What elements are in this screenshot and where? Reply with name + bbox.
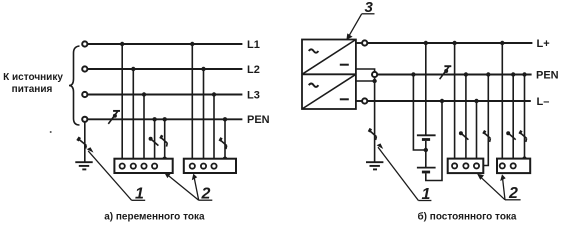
terminal circle L1 [82,41,87,46]
leader label 1 (right) [377,143,432,200]
junction dot PEN/box1 [152,117,156,121]
junction dot L-/battery [440,99,444,103]
junction dot PEN/PE wire boxA [486,72,490,76]
svg-text:L+: L+ [537,38,550,50]
line L3 [87,94,242,96]
junction dot battery midpoint [424,148,428,152]
fault mark on PEN line (right) [440,66,452,79]
line L+ [367,42,532,44]
fault mark on PEN line [108,111,120,124]
terminal circle L2 [82,66,87,71]
junction dot PEN stub [372,79,376,83]
fault mark on PE wire box 1 [160,135,167,146]
junction dot PEN/boxB [511,72,515,76]
svg-text:L3: L3 [247,89,260,101]
battery cell 1 [417,135,436,139]
junction dot PEN/battery tap [411,72,415,76]
junction dot L3/box2 [212,92,216,96]
leader label 3 [346,14,374,40]
leader label 2 (left) [164,172,212,200]
terminal circle L+ [362,40,367,45]
junction dot PEN/PE wire box1 [163,117,167,121]
PE wire to box B enclosure [524,75,526,159]
fault mark on PEN wire box B [506,131,516,140]
PEN upper stub from converter [356,69,375,72]
leader label 2 (right) [477,174,520,200]
junction dot PEN/PE wire boxB [522,72,526,76]
terminal circle L3 [82,92,87,97]
svg-text:1: 1 [135,186,144,203]
wire L2 to box 1 [132,69,134,164]
box 2 terminal circles [190,164,217,169]
load box 1 [114,159,172,173]
svg-text:1: 1 [422,186,431,203]
PE wire to box A enclosure [483,75,488,166]
DC dash top module [340,64,349,66]
battery feed wire from L+ [425,43,427,135]
ground electrode (left) [75,162,92,169]
load box 2 [184,159,236,173]
L- output stub [356,100,362,102]
junction dot PEN/PE wire box2 [223,117,227,121]
L+ output stub [356,42,362,44]
wire PEN to box A [465,75,467,165]
bonding dot on box B [522,156,526,160]
svg-text:PEN: PEN [247,114,270,126]
line L- [367,100,531,102]
junction dot PEN/boxA [464,72,468,76]
bonding dot on box 2 [223,157,227,161]
scan artifact dot [50,131,52,133]
junction dot L1/box2 [190,42,194,46]
junction dot L+/battery [424,41,428,45]
wire L1 to box 1 [121,44,123,164]
svg-text:L1: L1 [247,39,260,51]
earthing conductor (right) [374,77,376,162]
junction dot L1/box1 [120,42,124,46]
fault mark on PEN wire box A [459,131,469,140]
svg-text:L2: L2 [247,64,260,76]
terminal circle PEN [82,117,87,122]
leader label 1 (left) [87,147,146,200]
box 1 terminal circles [120,164,158,169]
terminal circle L- [362,98,367,103]
junction dot L2/box2 [201,67,205,71]
ground electrode (right) [366,162,383,169]
svg-text:L–: L– [537,96,550,108]
brace to source [69,46,80,125]
earthing conductor (left) [84,122,86,162]
load box B [497,159,530,174]
converter unit 3 (two AC/DC modules) [302,40,356,110]
AC tilde bottom module [309,84,319,87]
svg-text:питания: питания [12,84,53,95]
svg-text:а) переменного тока: а) переменного тока [104,211,205,222]
fault mark on PE wire box A [483,131,490,142]
bonding dot on box 1 [163,157,167,161]
junction dot L3/box1 [142,92,146,96]
PEN lower stub from converter [356,80,375,82]
svg-text:б) постоянного тока: б) постоянного тока [418,210,517,222]
load box A [448,159,484,174]
line PEN (right diagram) [377,74,531,76]
line L2 [87,68,242,70]
junction dot L-/boxA [474,99,478,103]
line L1 [87,43,242,45]
fault mark on PE wire box B [520,131,527,142]
wire L3 to box 2 [213,95,215,165]
terminal circle PEN (right) [372,72,377,77]
wire L+ to box B [501,43,503,164]
wire PEN to box 1 [154,119,156,164]
fault mark on earthing conductor [78,137,87,148]
box A terminal circles [452,163,479,168]
wire L3 to box 1 [143,95,145,165]
PE wire to box 2 enclosure [224,119,226,158]
junction dot L+/boxA [452,41,456,45]
wire L+ to box A [454,43,456,164]
svg-text:К источнику: К источнику [3,72,63,83]
junction dot L+/boxB [500,41,504,45]
svg-text:3: 3 [365,0,374,16]
battery cell 2 [417,168,436,172]
AC tilde top module [309,49,319,52]
box B terminal circles [500,163,516,168]
wire L- to box A [476,101,478,164]
fault mark on PE wire box 2 [220,138,227,149]
fault mark on earthing conductor (right) [369,129,376,140]
wire L1 to box 2 [191,44,193,164]
svg-text:2: 2 [201,185,211,202]
battery midpoint wire from PEN [413,75,425,151]
wire PEN to box B [512,75,514,165]
DC dash bottom module [340,98,349,100]
svg-text:PEN: PEN [536,69,559,81]
wire L2 to box 2 [203,69,205,164]
wire between cells [425,141,427,167]
text "К источнику питания" [3,72,63,95]
fault mark on PEN wire to box 1 [149,137,159,146]
line PEN (left diagram) [87,118,242,120]
junction dot L2/box1 [131,67,135,71]
battery return wire to L- [426,101,442,181]
PE wire to box 1 enclosure [164,119,166,158]
svg-text:2: 2 [508,185,518,202]
